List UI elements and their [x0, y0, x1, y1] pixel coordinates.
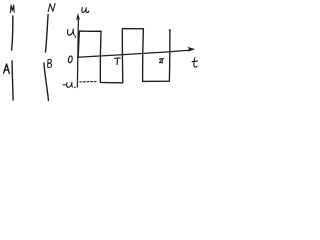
blob at top of third rising edge: [169, 29, 171, 31]
label u (axis name): [82, 8, 89, 13]
u axis arrowhead: [76, 13, 80, 20]
label 2T (second period mark): [159, 59, 163, 64]
label M: [10, 5, 14, 13]
label t (axis name): [192, 58, 198, 67]
label U1 (positive level): [67, 29, 73, 35]
label -U1 (negative level): [63, 84, 66, 86]
-U1 subscript dot: [74, 87, 76, 89]
plate N upper segment: [46, 15, 49, 53]
t axis (horizontal): [78, 50, 189, 57]
label T (first period mark): [115, 58, 121, 64]
plate M upper segment: [12, 16, 13, 50]
dashed -U1 level line: [80, 81, 97, 83]
label 0 (origin): [68, 56, 73, 64]
square wave u(t): [78, 29, 170, 83]
label A: [4, 64, 10, 73]
u axis (vertical): [77, 17, 78, 88]
t axis arrowhead: [187, 47, 195, 52]
label N: [48, 3, 55, 11]
plate M lower segment (A): [12, 61, 13, 100]
plate N lower segment (B): [44, 63, 49, 101]
label B: [48, 59, 52, 67]
